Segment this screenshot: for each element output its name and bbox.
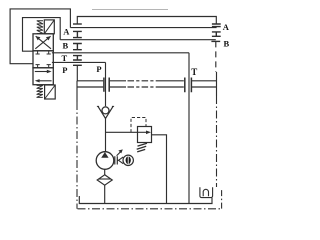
svg-text:B: B (224, 38, 230, 48)
breather / tank vent (200, 187, 213, 197)
filter F1 (97, 175, 112, 185)
valve bottom position parallel arrows (35, 70, 52, 83)
enclosure left border dash-dot (76, 102, 78, 209)
motor shaft coupling (115, 149, 123, 164)
check valve CV1 (97, 106, 114, 118)
wire inner loop (valve B work line around solenoid) (23, 18, 61, 52)
wire upper hose dashed (110, 80, 126, 82)
wire relief valve feed (106, 131, 138, 133)
right coupling B (end of line B) (211, 40, 220, 42)
solenoid bottom with diagonal (45, 85, 56, 99)
wire suction pipe to tank (104, 185, 106, 203)
coupling hoses (left pair of tall bars) (104, 78, 109, 92)
wire line T (52, 52, 189, 54)
solenoid top with diagonal (44, 20, 54, 34)
coupling A upper half bar (73, 23, 82, 25)
wire B dashed riser down (215, 41, 217, 72)
wire relief drain (152, 135, 167, 204)
wire outer loop (valve A work line around box) (10, 9, 70, 64)
wire P riser from pump (105, 62, 107, 106)
wire faint rail (92, 9, 168, 11)
svg-text:P: P (62, 65, 67, 75)
coupling P lower half (73, 64, 82, 66)
wire hose rail (top jumper A) (77, 17, 216, 25)
enclosure bottom border dash-dot (78, 208, 222, 210)
wire line B (60, 39, 216, 41)
wire P hose down from coupling (77, 65, 103, 81)
relief valve RV1 (131, 118, 152, 152)
valve 4/3 DCV body U1 (33, 34, 53, 85)
svg-text:T: T (191, 67, 197, 77)
right coupling A (under rail corner) (212, 24, 221, 27)
svg-text:A: A (223, 22, 230, 32)
wire left border solid part (76, 81, 78, 102)
coupling T-P pair (73, 56, 82, 60)
valve top position crossed arrows (35, 36, 51, 49)
coupling stack station (left) x=77.3 (73, 24, 82, 65)
spring top (37, 21, 43, 34)
wire lower hose left segment (77, 86, 103, 88)
wire upper hose to right riser (192, 80, 217, 82)
valve middle position closed-center stubs (36, 51, 51, 68)
svg-text:B: B (63, 40, 69, 50)
right coupling A-B pair (212, 32, 221, 36)
electric motor M (123, 155, 133, 165)
wire T riser down to tank (188, 53, 190, 204)
wire lower hose to right riser (192, 86, 217, 88)
wire line P (52, 61, 106, 63)
coupling A-B pair (73, 31, 82, 37)
relief spring (137, 143, 147, 152)
svg-text:P: P (96, 64, 101, 74)
spring bottom (37, 85, 43, 97)
wire lower hose dashed (110, 86, 126, 88)
relief pilot dashed (131, 118, 146, 133)
coupling hoses (right pair straddling T riser) (185, 78, 192, 93)
wire riser check valve to pump (105, 119, 107, 152)
coupling B-T pair (73, 44, 82, 50)
enclosure right border dash-dot (216, 96, 218, 187)
svg-text:T: T (62, 53, 68, 63)
tank line (79, 196, 212, 204)
pump M1 (96, 152, 114, 170)
wire pump suction (104, 169, 106, 175)
wire line A (70, 27, 216, 29)
svg-text:A: A (63, 26, 70, 36)
enclosure bottom-right corner (221, 188, 223, 209)
